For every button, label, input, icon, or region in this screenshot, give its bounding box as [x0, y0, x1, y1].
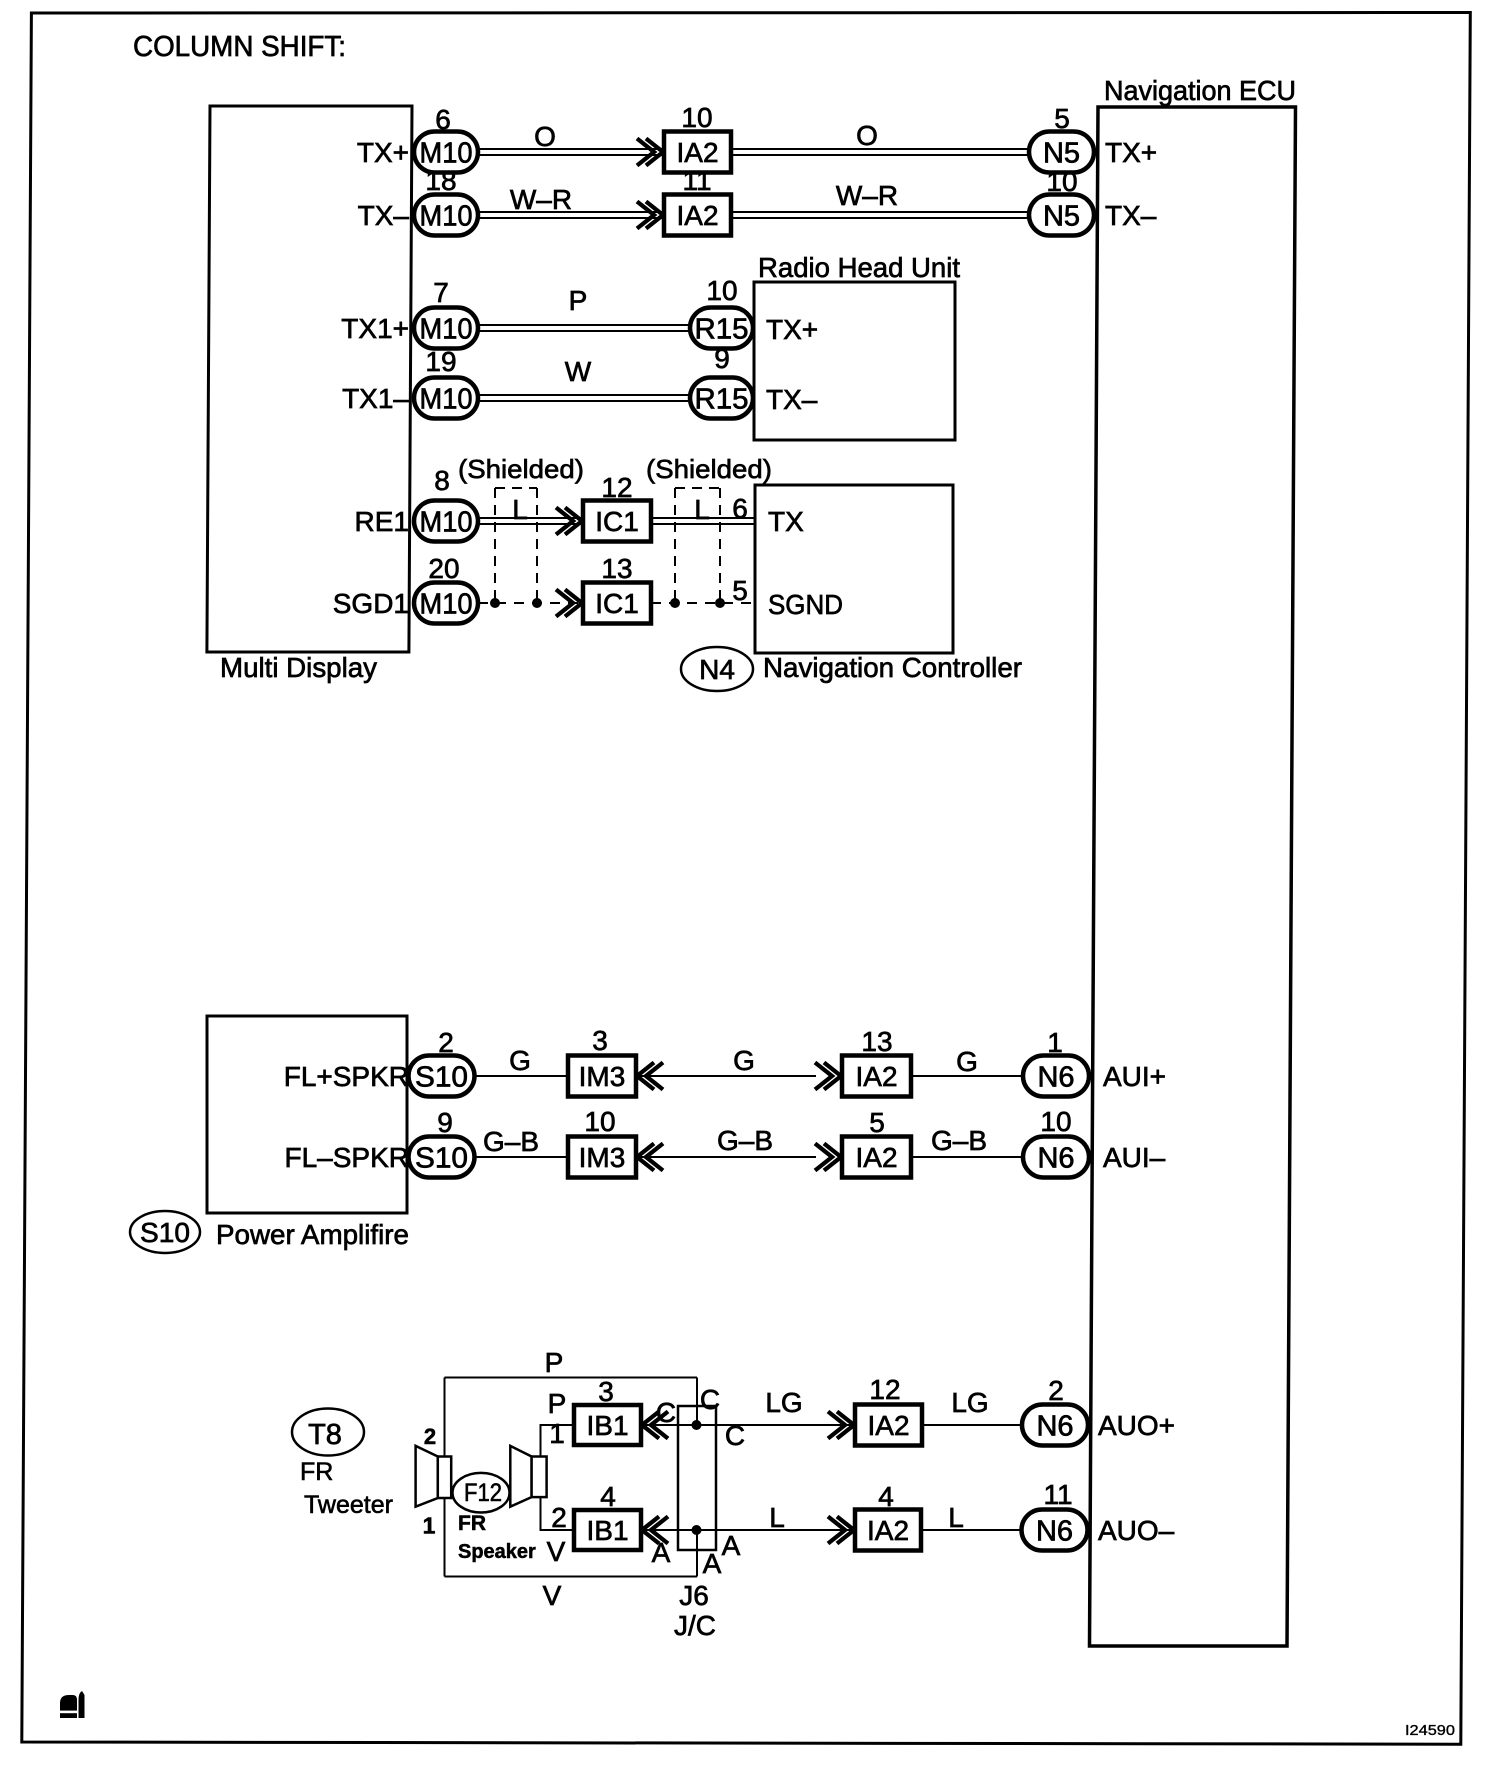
svg-text:S10: S10 — [415, 1142, 468, 1174]
svg-text:12: 12 — [601, 472, 632, 503]
svg-text:Multi Display: Multi Display — [220, 652, 377, 683]
svg-text:N5: N5 — [1043, 137, 1080, 169]
svg-text:IC1: IC1 — [595, 588, 639, 619]
svg-text:IB1: IB1 — [586, 1515, 628, 1546]
svg-text:P: P — [545, 1347, 564, 1378]
svg-text:FR: FR — [458, 1512, 486, 1535]
svg-text:TX1+: TX1+ — [341, 313, 409, 344]
svg-text:Speaker: Speaker — [458, 1541, 536, 1563]
svg-text:IA2: IA2 — [676, 200, 718, 231]
svg-text:IA2: IA2 — [676, 137, 718, 168]
svg-text:T8: T8 — [308, 1419, 342, 1451]
svg-text:O: O — [534, 121, 556, 152]
svg-text:2: 2 — [1048, 1375, 1064, 1406]
svg-text:10: 10 — [681, 102, 712, 133]
svg-text:TX–: TX– — [358, 200, 410, 231]
svg-text:19: 19 — [425, 346, 456, 377]
svg-text:6: 6 — [732, 493, 748, 524]
svg-text:L: L — [948, 1502, 964, 1533]
svg-text:G–B: G–B — [483, 1126, 539, 1157]
svg-text:10: 10 — [706, 275, 737, 306]
svg-text:9: 9 — [714, 343, 730, 374]
svg-text:LG: LG — [951, 1387, 988, 1418]
svg-text:M10: M10 — [420, 588, 473, 620]
svg-text:AUO+: AUO+ — [1098, 1410, 1175, 1441]
svg-text:20: 20 — [428, 553, 459, 584]
svg-text:G: G — [956, 1046, 978, 1077]
svg-text:TX1–: TX1– — [342, 383, 409, 414]
svg-text:C: C — [700, 1384, 720, 1415]
svg-text:IA2: IA2 — [867, 1515, 909, 1546]
svg-text:IM3: IM3 — [579, 1061, 626, 1092]
svg-text:(Shielded): (Shielded) — [458, 454, 584, 484]
svg-text:M10: M10 — [420, 506, 473, 538]
svg-text:11: 11 — [682, 165, 711, 196]
svg-text:A: A — [703, 1548, 722, 1579]
svg-text:Tweeter: Tweeter — [304, 1491, 393, 1519]
svg-text:FR: FR — [300, 1458, 333, 1486]
svg-text:1: 1 — [1047, 1027, 1063, 1058]
svg-text:10: 10 — [584, 1106, 615, 1137]
svg-text:Power Amplifire: Power Amplifire — [216, 1219, 409, 1250]
svg-text:2: 2 — [424, 1424, 436, 1449]
svg-text:2: 2 — [438, 1027, 454, 1058]
svg-text:AUI–: AUI– — [1103, 1142, 1166, 1173]
svg-text:IA2: IA2 — [855, 1142, 897, 1173]
svg-text:AUI+: AUI+ — [1103, 1061, 1166, 1092]
svg-text:TX–: TX– — [1105, 200, 1157, 231]
svg-text:1: 1 — [549, 1418, 565, 1449]
svg-text:M10: M10 — [420, 200, 473, 232]
svg-text:4: 4 — [878, 1481, 894, 1512]
svg-text:LG: LG — [765, 1387, 802, 1418]
svg-text:6: 6 — [435, 104, 451, 135]
svg-text:Navigation Controller: Navigation Controller — [763, 652, 1022, 683]
svg-text:4: 4 — [600, 1481, 616, 1512]
svg-text:COLUMN SHIFT:: COLUMN SHIFT: — [133, 31, 346, 63]
svg-text:A: A — [722, 1530, 741, 1561]
svg-text:N4: N4 — [699, 654, 735, 685]
svg-text:IB1: IB1 — [586, 1410, 628, 1441]
svg-text:3: 3 — [592, 1025, 608, 1056]
svg-text:IM3: IM3 — [579, 1142, 626, 1173]
svg-text:SGND: SGND — [768, 589, 843, 620]
svg-text:Radio Head Unit: Radio Head Unit — [758, 252, 960, 283]
svg-text:G: G — [733, 1045, 755, 1076]
svg-text:N6: N6 — [1037, 1142, 1074, 1174]
svg-text:TX+: TX+ — [766, 314, 818, 345]
svg-text:13: 13 — [861, 1026, 892, 1057]
svg-text:N5: N5 — [1043, 200, 1080, 232]
svg-text:R15: R15 — [695, 383, 749, 415]
svg-text:G: G — [509, 1045, 531, 1076]
svg-text:12: 12 — [869, 1374, 900, 1405]
svg-text:Navigation ECU: Navigation ECU — [1104, 75, 1296, 106]
svg-text:AUO–: AUO– — [1098, 1515, 1175, 1546]
svg-text:2: 2 — [551, 1502, 567, 1533]
svg-text:RE1: RE1 — [355, 506, 409, 537]
svg-text:C: C — [656, 1397, 676, 1428]
svg-text:I24590: I24590 — [1405, 1723, 1455, 1739]
svg-text:M10: M10 — [420, 383, 473, 415]
svg-text:5: 5 — [732, 575, 748, 606]
svg-text:TX+: TX+ — [357, 137, 409, 168]
svg-text:IC1: IC1 — [595, 506, 639, 537]
svg-text:3: 3 — [598, 1376, 614, 1407]
svg-text:IA2: IA2 — [855, 1061, 897, 1092]
svg-text:P: P — [548, 1388, 567, 1419]
svg-text:1: 1 — [423, 1513, 436, 1539]
svg-text:7: 7 — [433, 277, 449, 308]
svg-text:L: L — [512, 494, 528, 525]
svg-text:C: C — [725, 1420, 745, 1451]
svg-text:9: 9 — [437, 1107, 453, 1138]
svg-text:5: 5 — [1054, 103, 1070, 134]
svg-text:V: V — [547, 1536, 566, 1567]
svg-text:11: 11 — [1043, 1479, 1072, 1510]
svg-text:N6: N6 — [1036, 1515, 1073, 1547]
svg-text:SGD1: SGD1 — [333, 588, 409, 619]
svg-text:13: 13 — [601, 553, 632, 584]
svg-text:L: L — [694, 494, 710, 525]
svg-text:S10: S10 — [140, 1217, 190, 1248]
svg-text:FL+SPKR: FL+SPKR — [284, 1061, 409, 1092]
svg-text:N6: N6 — [1036, 1410, 1073, 1442]
svg-text:10: 10 — [1040, 1106, 1071, 1137]
svg-text:S10: S10 — [415, 1061, 468, 1093]
svg-text:IA2: IA2 — [867, 1410, 909, 1441]
svg-text:(Shielded): (Shielded) — [646, 454, 772, 484]
svg-text:M10: M10 — [420, 313, 473, 345]
svg-text:FL–SPKR: FL–SPKR — [285, 1142, 410, 1173]
svg-text:G–B: G–B — [717, 1125, 773, 1156]
svg-text:TX: TX — [768, 506, 804, 537]
svg-text:G–B: G–B — [931, 1125, 987, 1156]
svg-text:A: A — [652, 1537, 671, 1568]
svg-text:J/C: J/C — [674, 1610, 716, 1641]
svg-text:O: O — [856, 120, 878, 151]
svg-text:J6: J6 — [679, 1580, 709, 1611]
svg-text:L: L — [769, 1502, 785, 1533]
svg-text:W–R: W–R — [510, 184, 572, 215]
svg-text:V: V — [543, 1580, 562, 1611]
svg-text:TX+: TX+ — [1105, 137, 1157, 168]
svg-text:10: 10 — [1046, 166, 1077, 197]
svg-text:5: 5 — [869, 1107, 885, 1138]
svg-text:8: 8 — [434, 465, 450, 496]
svg-text:TX–: TX– — [766, 384, 818, 415]
svg-text:F12: F12 — [464, 1479, 502, 1507]
svg-text:P: P — [569, 285, 588, 316]
svg-text:W: W — [565, 356, 592, 387]
svg-text:W–R: W–R — [836, 180, 898, 211]
svg-text:18: 18 — [425, 165, 456, 196]
svg-text:R15: R15 — [695, 313, 749, 345]
svg-text:N6: N6 — [1037, 1061, 1074, 1093]
